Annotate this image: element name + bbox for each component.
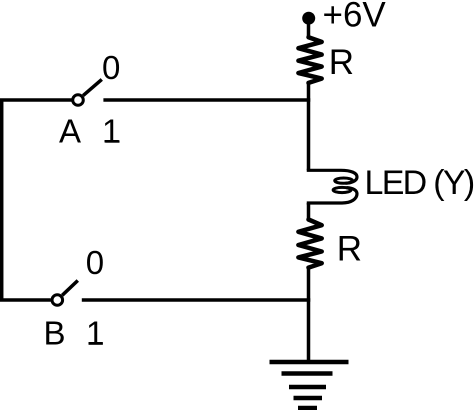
wire switch B right segment to node [82,298,310,302]
wire supply dot to R1 [307,22,311,39]
svg-text:R: R [329,43,354,82]
svg-text:1: 1 [86,315,104,352]
wire left rail: switch A left lead, left vertical rail, switch B left lead [2,100,72,300]
node +6V supply dot [302,12,315,25]
wire R2 to ground (through node B) [307,266,311,362]
svg-text:+6V: +6V [323,0,387,35]
svg-text:0: 0 [86,244,104,281]
svg-text:A: A [59,113,81,150]
switch A pivot contact [73,95,84,106]
LED D1 (Y) top lead with entry hook [307,170,357,183]
wire R1 to LED top lead corner [307,82,311,171]
ground symbol [270,362,349,408]
switch B lever arm [62,281,78,296]
LED D1 bottom lead with exit hook [307,188,357,203]
switch A lever arm [83,79,102,95]
svg-text:1: 1 [102,113,120,150]
resistor R1 [298,37,321,83]
wire LED bottom lead to R2 [307,203,311,221]
svg-text:LED (Y): LED (Y) [365,164,474,202]
svg-text:R: R [337,229,362,268]
svg-text:B: B [44,315,66,352]
switch B pivot contact [52,295,63,306]
LED D1 coil loop 2 [333,187,351,192]
resistor R2 [298,220,321,268]
wire switch A right segment to node [103,98,310,102]
LED D1 coil loop 1 [335,178,353,183]
svg-text:0: 0 [102,49,120,86]
